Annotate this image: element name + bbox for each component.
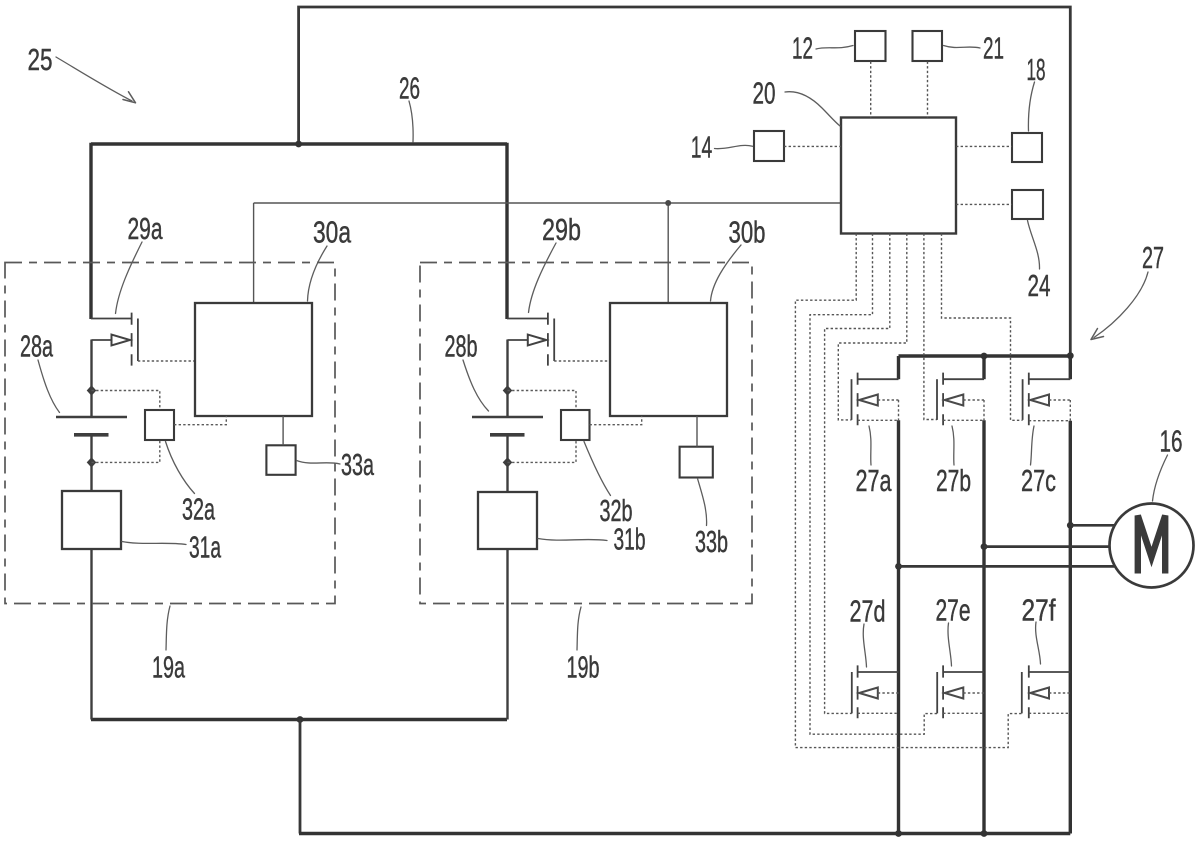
leader for label 30a bbox=[308, 246, 328, 301]
wire: battery 28a positive lead bbox=[90, 340, 92, 418]
svg-text:31a: 31a bbox=[189, 531, 221, 565]
junction: phase b at return rail bbox=[981, 830, 988, 837]
wire: outer supply loop (top rail and right feed) bbox=[299, 7, 1071, 356]
block 32b (pack b voltage sensor) bbox=[561, 410, 590, 440]
junction: outer loop to rail 26 bbox=[295, 141, 302, 148]
leader for label 26 bbox=[409, 101, 413, 142]
svg-text:24: 24 bbox=[1028, 268, 1051, 303]
svg-text:27c: 27c bbox=[1021, 463, 1056, 498]
box 14 bbox=[754, 131, 784, 161]
box 21 bbox=[913, 31, 943, 61]
leader for label 27b bbox=[952, 426, 954, 465]
leader for label 30b bbox=[711, 245, 742, 301]
leader for label 31b bbox=[538, 539, 607, 541]
sensor line: 32a to block 30a bbox=[174, 416, 226, 425]
wire: motor line U (phase c) bbox=[1070, 524, 1115, 527]
leader for label 27e bbox=[948, 623, 952, 666]
wire: right bus drop to transistor 29b drain bbox=[505, 143, 508, 319]
leader arrow for label 25 bbox=[56, 57, 132, 101]
junction: inverter rail at leg b bbox=[981, 353, 988, 360]
svg-text:19b: 19b bbox=[566, 649, 599, 685]
svg-text:20: 20 bbox=[753, 75, 776, 110]
block 33a (pack a element) bbox=[266, 445, 295, 475]
block 30b (pack b monitor circuit) bbox=[610, 303, 727, 416]
svg-text:32a: 32a bbox=[182, 491, 215, 527]
svg-text:19a: 19a bbox=[152, 649, 185, 685]
svg-text:27: 27 bbox=[1142, 239, 1164, 275]
svg-text:27d: 27d bbox=[850, 594, 886, 629]
transistor 27b (high side V) bbox=[937, 373, 984, 426]
junction: bottom rail to ground riser bbox=[297, 716, 304, 723]
wire: block 31b to negative rail bbox=[506, 549, 508, 720]
wire: bottom return rail bbox=[299, 832, 1070, 835]
svg-text:18: 18 bbox=[1027, 53, 1046, 88]
svg-text:30a: 30a bbox=[313, 214, 352, 249]
wire: block 31a to negative rail bbox=[90, 549, 92, 720]
link: box 14 to controller 20 bbox=[784, 145, 841, 147]
leader for label 24 bbox=[1028, 221, 1040, 270]
gate drive line 2: controller to transistor 27e bbox=[810, 234, 937, 735]
wire: left bus drop to transistor 29a drain bbox=[89, 143, 92, 319]
gate drive line 4: controller to transistor 27a bbox=[838, 234, 907, 420]
junction: phase c to motor line bbox=[1067, 522, 1074, 529]
wire: motor line W (phase a) bbox=[899, 565, 1116, 568]
link: controller 20 to box 18 bbox=[956, 145, 1012, 147]
link: controller 20 to box 24 bbox=[956, 203, 1012, 205]
gate control line 29a to block 30a bbox=[138, 360, 195, 362]
svg-text:27b: 27b bbox=[936, 463, 971, 498]
svg-text:29b: 29b bbox=[542, 212, 581, 247]
battery 28a short plate bbox=[74, 433, 109, 437]
svg-text:33b: 33b bbox=[695, 523, 728, 559]
junction: phase b to motor line bbox=[981, 543, 988, 550]
battery 28b long plate bbox=[472, 416, 543, 419]
svg-text:28b: 28b bbox=[444, 328, 477, 364]
wire: battery 28b positive lead bbox=[506, 340, 508, 418]
leader for label 12 bbox=[816, 46, 853, 50]
block 33b (pack b element) bbox=[680, 447, 713, 478]
sensor line: 32b to block 30b bbox=[590, 416, 642, 425]
wire: node 26 negative rail (bottom edge of pack bus) bbox=[91, 718, 507, 721]
box 12 bbox=[855, 31, 886, 61]
sensor line: 28a positive tap to 32a bbox=[92, 391, 160, 411]
svg-text:25: 25 bbox=[28, 41, 53, 76]
leader for label 27d bbox=[863, 624, 866, 667]
battery pack 19b dashed enclosure bbox=[420, 263, 752, 604]
junction: 30b riser on signal bus bbox=[665, 200, 671, 206]
gate control line 29b to block 30b bbox=[554, 360, 610, 362]
junction: phase a to motor line bbox=[895, 563, 902, 570]
svg-text:27f: 27f bbox=[1022, 593, 1056, 627]
sensor line: 28b negative tap to 32b bbox=[508, 440, 577, 462]
sensor line: 28a negative tap to 32a bbox=[92, 440, 160, 462]
wire: leg b phase column bbox=[982, 420, 985, 833]
wire: battery 28b negative lead to block 31b bbox=[506, 435, 508, 492]
link: box 21 to controller 20 bbox=[927, 62, 929, 118]
leader for label 19b bbox=[577, 607, 581, 650]
block 31a (pack a cell block) bbox=[62, 491, 121, 549]
gate drive line 6: controller to transistor 27c bbox=[942, 234, 1023, 421]
svg-text:33a: 33a bbox=[341, 446, 374, 482]
leader for label 27c bbox=[1031, 426, 1035, 465]
wire: battery 28a negative lead to block 31a bbox=[90, 435, 92, 492]
leader for label 29a bbox=[116, 242, 143, 314]
junction diamond: battery 28b negative tap bbox=[503, 457, 513, 467]
block 32a (pack a voltage sensor) bbox=[145, 410, 174, 440]
transistor 27e (low side V) bbox=[937, 665, 984, 718]
gate drive line 1: controller to transistor 27f bbox=[795, 234, 1021, 748]
leader for label 16 bbox=[1153, 455, 1168, 501]
wire: block 30b to block 33b bbox=[696, 416, 698, 447]
wire: inverter positive rail bbox=[899, 354, 1071, 357]
transistor 29a (pack a switch FET) bbox=[91, 313, 138, 366]
junction: phase a at return rail bbox=[895, 830, 902, 837]
svg-text:30b: 30b bbox=[728, 215, 765, 249]
leader for label 31a bbox=[122, 542, 186, 545]
leader arrow for label 27 bbox=[1094, 272, 1148, 338]
wire: ground riser to bottom return rail bbox=[299, 720, 302, 834]
svg-text:14: 14 bbox=[691, 131, 713, 165]
wire: leg c drain feed bbox=[1069, 356, 1072, 379]
svg-text:28a: 28a bbox=[20, 328, 53, 364]
wire: block 30a riser bbox=[253, 203, 255, 303]
wire: leg c phase column bbox=[1069, 421, 1072, 834]
leader for label 21 bbox=[944, 46, 981, 49]
leader for label 32a bbox=[166, 442, 195, 494]
leader for label 28b bbox=[463, 360, 489, 411]
svg-text:27e: 27e bbox=[935, 592, 970, 627]
battery 28b short plate bbox=[490, 433, 525, 437]
transistor 27d (low side U) bbox=[852, 665, 899, 718]
transistor 27f (low side W) bbox=[1022, 665, 1071, 718]
controller block 20 bbox=[841, 118, 956, 234]
sensor line: 28b positive tap to 32b bbox=[508, 391, 577, 411]
wire: block 30b riser bbox=[667, 203, 669, 303]
leader for label 32b bbox=[584, 442, 611, 496]
svg-text:31b: 31b bbox=[613, 523, 645, 557]
wire: leg a drain feed bbox=[897, 356, 900, 379]
leader for label 33a bbox=[297, 461, 341, 465]
wire: leg b drain feed bbox=[982, 356, 985, 379]
box 24 bbox=[1012, 190, 1043, 219]
gate drive line 5: controller to transistor 27b bbox=[924, 234, 937, 420]
leader for label 27f bbox=[1036, 622, 1041, 664]
transistor 27c (high side W) bbox=[1023, 373, 1071, 426]
leader for label 27a bbox=[869, 426, 871, 465]
svg-text:21: 21 bbox=[983, 32, 1004, 66]
box 18 bbox=[1012, 133, 1042, 162]
junction diamond: battery 28b positive tap bbox=[503, 385, 513, 395]
block 31b (pack b cell block) bbox=[478, 492, 537, 549]
leader for label 14 bbox=[715, 145, 753, 148]
svg-text:12: 12 bbox=[792, 32, 813, 66]
leader for label 29b bbox=[529, 243, 557, 313]
leader for label 19a bbox=[166, 606, 170, 650]
transistor 27a (high side U) bbox=[852, 373, 899, 426]
leader for label 28a bbox=[38, 360, 60, 413]
motor 16 letter M bbox=[1138, 516, 1165, 574]
wire: block 30a to block 33a bbox=[282, 416, 284, 445]
junction: inverter rail at leg c bbox=[1067, 352, 1074, 359]
leader for label 20 bbox=[785, 92, 840, 126]
junction diamond: battery 28a positive tap bbox=[87, 385, 97, 395]
motor 16 circle bbox=[1110, 504, 1194, 588]
svg-text:27a: 27a bbox=[856, 463, 892, 498]
wire: leg a phase column bbox=[897, 420, 900, 833]
svg-text:16: 16 bbox=[1160, 423, 1183, 458]
leader for label 18 bbox=[1028, 82, 1034, 131]
wire: motor line V (phase b) bbox=[984, 545, 1110, 548]
block 30a (pack a monitor circuit) bbox=[195, 303, 312, 416]
svg-text:26: 26 bbox=[399, 72, 420, 106]
junction diamond: battery 28a negative tap bbox=[87, 457, 97, 467]
wire: signal bus from packs to controller 20 bbox=[254, 202, 841, 204]
link: box 12 to controller 20 bbox=[870, 62, 872, 118]
leader for label 33b bbox=[698, 479, 707, 526]
svg-text:29a: 29a bbox=[127, 211, 162, 246]
transistor 29b (pack b switch FET) bbox=[507, 313, 554, 366]
battery 28a long plate bbox=[56, 416, 127, 419]
gate drive line 3: controller to transistor 27d bbox=[825, 234, 890, 714]
battery pack 19a dashed enclosure bbox=[5, 263, 335, 604]
wire: node 26 positive rail (top edge of pack bus) bbox=[91, 142, 507, 145]
